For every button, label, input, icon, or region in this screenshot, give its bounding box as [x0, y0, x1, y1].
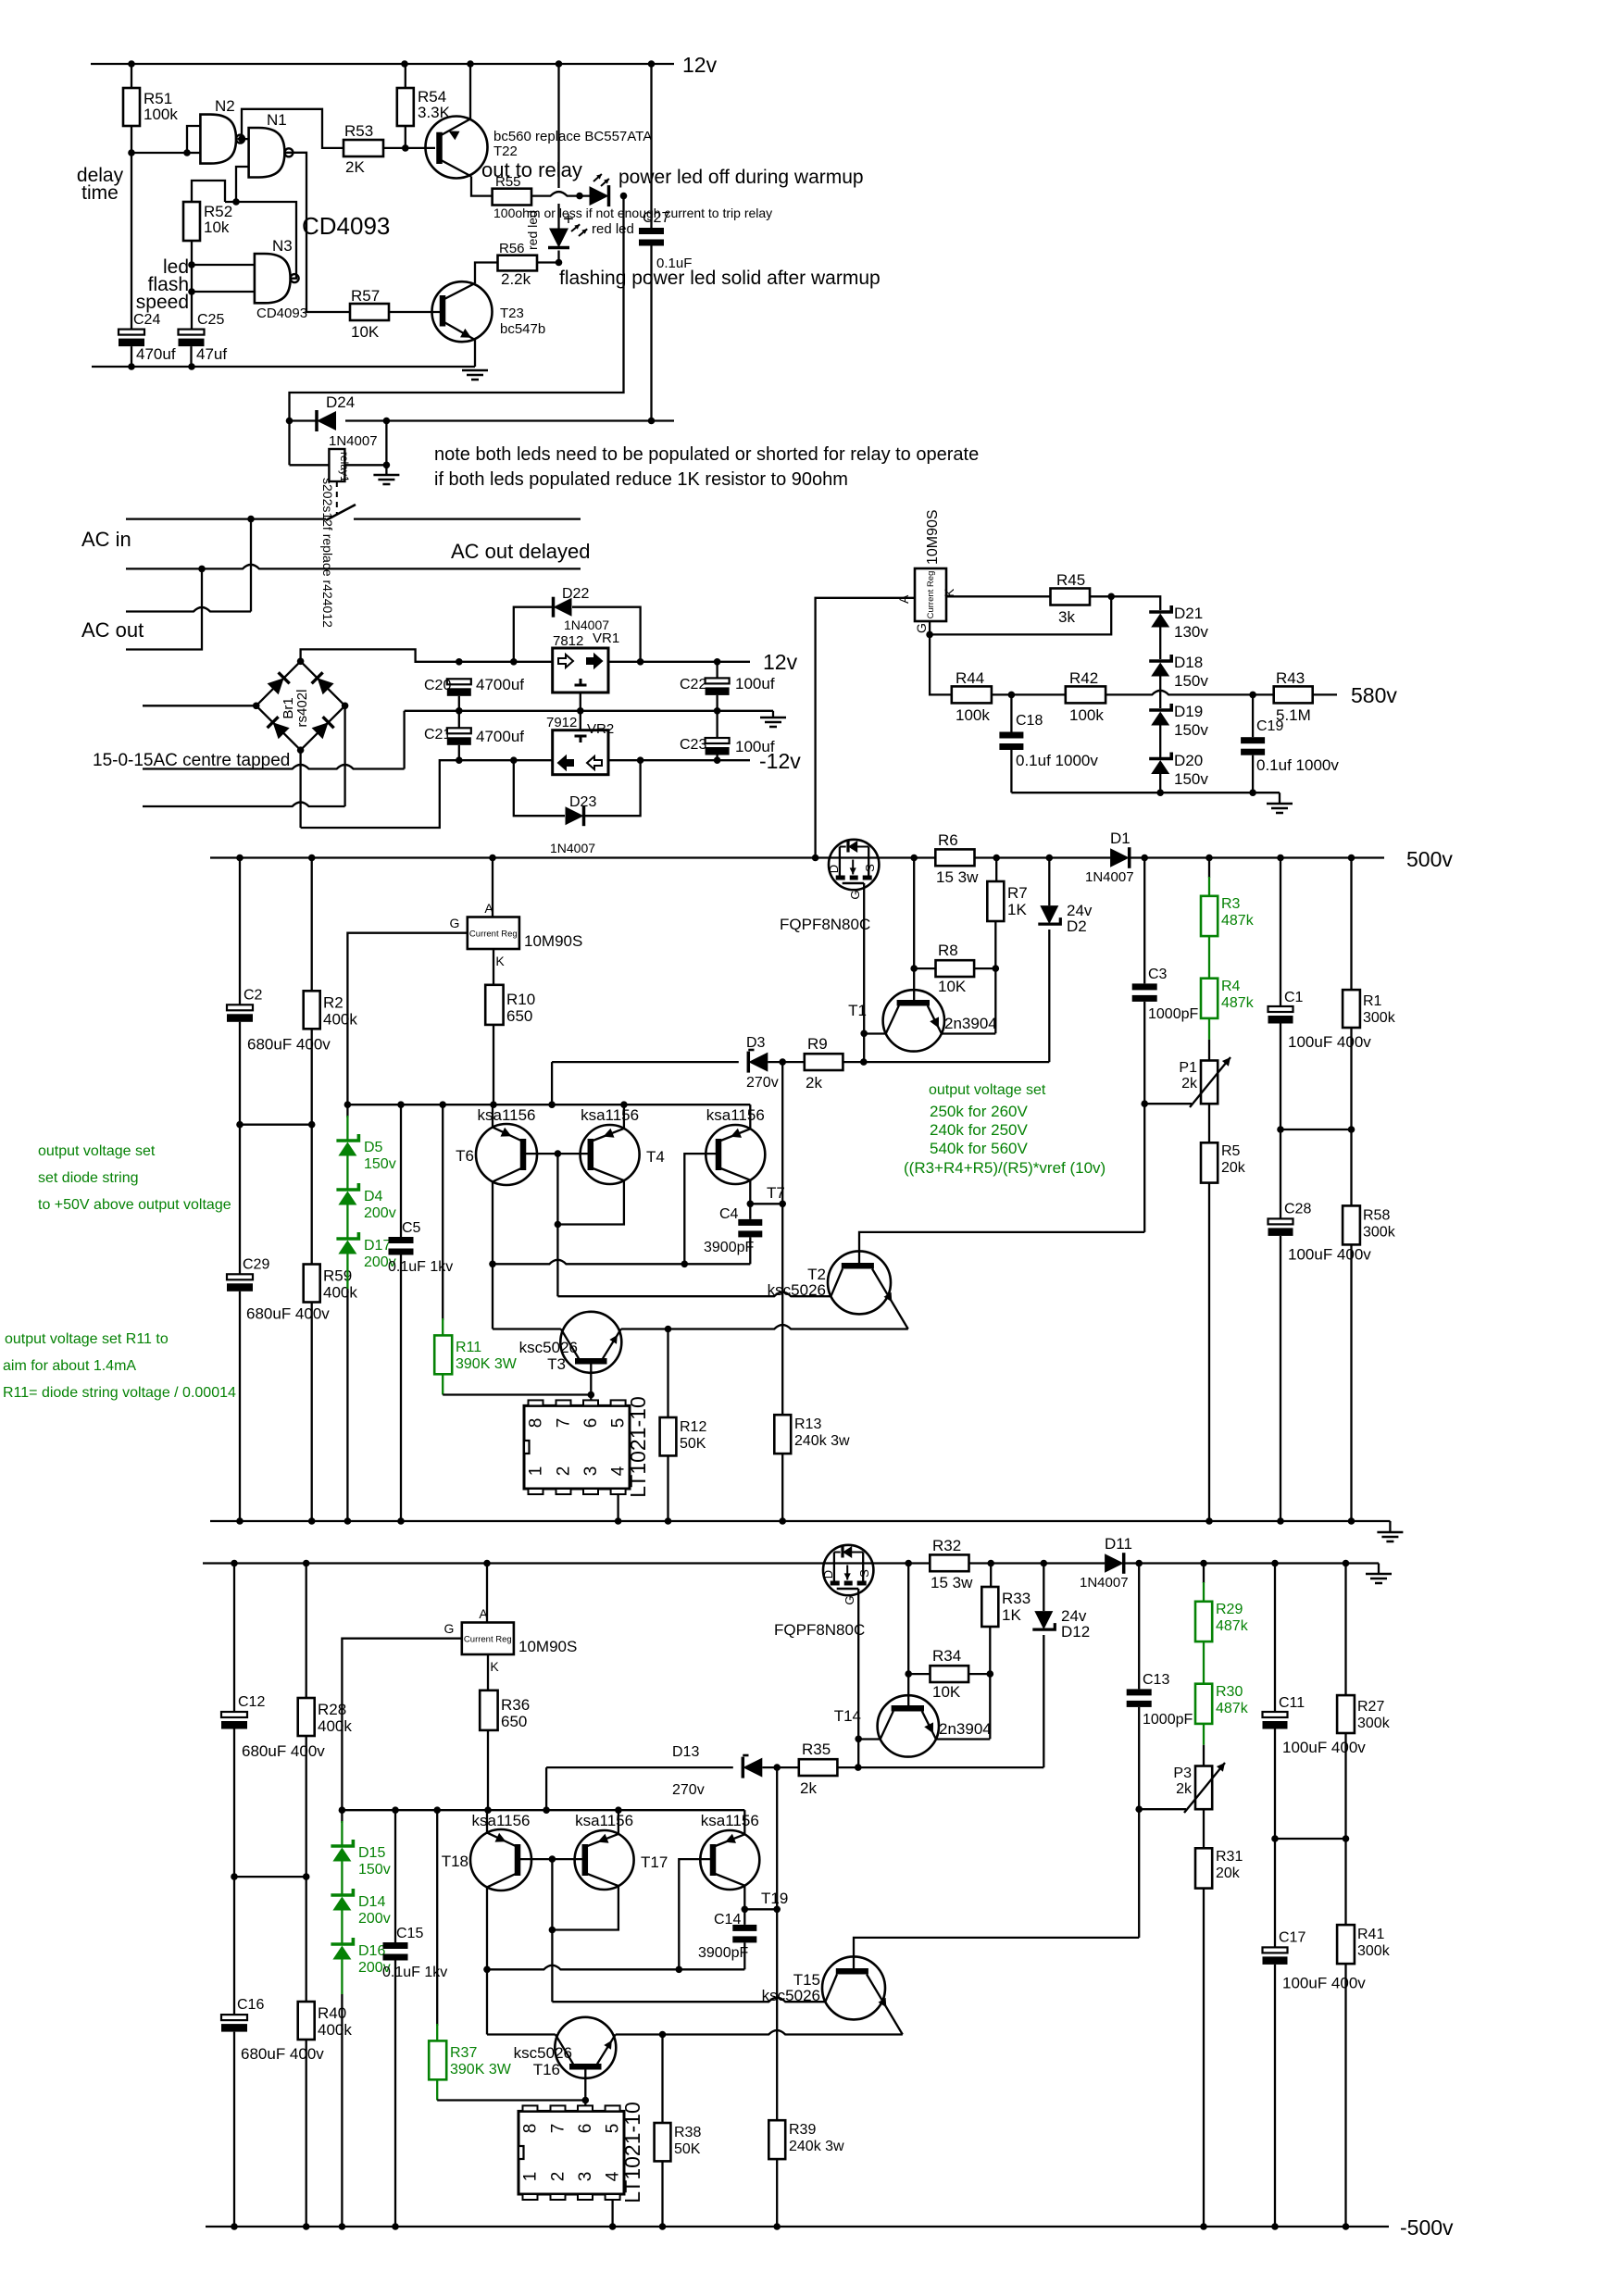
wire C4 bottom row	[487, 1965, 744, 1970]
svg-text:2k: 2k	[1176, 1781, 1193, 1797]
resistor R28	[306, 1564, 307, 1699]
svg-text:100uF 400v: 100uF 400v	[1282, 1739, 1366, 1756]
resistor R1	[1350, 858, 1352, 991]
svg-text:10K: 10K	[351, 323, 380, 341]
svg-text:ksc5026: ksc5026	[514, 2044, 572, 2062]
svg-text:400k: 400k	[318, 1717, 352, 1735]
svg-text:400k: 400k	[323, 1010, 357, 1028]
wire relay flyback row	[290, 419, 318, 421]
regulator VR1 7812	[553, 648, 608, 693]
svg-text:D24: D24	[326, 393, 355, 411]
resistor R31	[1203, 1809, 1205, 1848]
svg-text:AC in: AC in	[81, 528, 131, 551]
resistor R8	[914, 967, 935, 969]
zener D21 130v	[1149, 605, 1171, 612]
svg-text:D17: D17	[364, 1238, 391, 1254]
svg-text:((R3+R4+R5)/(R5)*vref (10v): ((R3+R4+R5)/(R5)*vref (10v)	[904, 1159, 1106, 1177]
svg-text:G: G	[444, 1621, 455, 1636]
svg-text:D5: D5	[364, 1140, 383, 1155]
svg-text:10k: 10k	[204, 218, 230, 236]
svg-text:100k: 100k	[956, 706, 990, 724]
transistor T6	[476, 1124, 537, 1185]
wire wiper to C3 column	[1139, 1808, 1186, 1810]
capacitor C24	[131, 153, 132, 330]
svg-text:D11: D11	[1105, 1535, 1132, 1553]
svg-text:C24: C24	[133, 312, 160, 328]
capacitor C21	[458, 711, 460, 729]
capacitor C22	[716, 662, 718, 679]
wire wiper to C3 column	[1144, 1103, 1192, 1104]
svg-text:R45: R45	[1056, 571, 1085, 589]
svg-text:D13: D13	[672, 1744, 699, 1760]
zener D19 150v	[1149, 704, 1171, 710]
svg-text:400k: 400k	[323, 1284, 357, 1302]
wire pin 4 to ground rail	[611, 2200, 613, 2227]
resistor R11	[442, 1104, 443, 1320]
svg-text:R1: R1	[1363, 993, 1382, 1009]
svg-text:K: K	[490, 1659, 499, 1674]
capacitor C25	[179, 330, 205, 335]
svg-text:C25: C25	[197, 312, 224, 328]
wire AC in line 1	[126, 518, 326, 519]
svg-text:Current Reg: Current Reg	[469, 930, 518, 940]
svg-text:100k: 100k	[1069, 706, 1104, 724]
svg-text:2n3904: 2n3904	[939, 1720, 992, 1738]
svg-text:T18: T18	[442, 1853, 468, 1870]
svg-text:T19: T19	[761, 1890, 788, 1907]
capacitor C3	[1143, 858, 1145, 984]
svg-text:N1: N1	[267, 111, 287, 129]
resistor R54	[405, 64, 406, 88]
svg-text:6: 6	[581, 1418, 601, 1429]
svg-text:R38: R38	[674, 2125, 701, 2140]
wire right link row	[1275, 1838, 1346, 1840]
svg-text:100k: 100k	[144, 106, 178, 123]
svg-text:R35: R35	[802, 1741, 831, 1758]
svg-text:1K: 1K	[1002, 1606, 1021, 1624]
wire regulator node row	[342, 1809, 744, 1811]
zener D14	[341, 1862, 343, 1896]
regulator 10M90S current reg	[486, 1564, 488, 1623]
svg-text:470uf: 470uf	[136, 345, 176, 363]
svg-text:3900pF: 3900pF	[704, 1240, 754, 1255]
wire base tie column down	[551, 1859, 553, 1929]
svg-text:R6: R6	[938, 831, 958, 849]
wire VR2 output -12v	[608, 759, 750, 761]
svg-text:C21: C21	[424, 727, 451, 742]
transistor T18	[470, 1829, 531, 1890]
svg-text:487k: 487k	[1221, 995, 1255, 1011]
svg-text:T17: T17	[641, 1853, 668, 1871]
transistor T17	[575, 1830, 634, 1890]
svg-text:C15: C15	[396, 1926, 423, 1941]
regulator VR2 7912	[553, 730, 608, 775]
wire timer 0v rail	[92, 366, 475, 368]
resistor R41	[1344, 1839, 1346, 1925]
capacitor C28	[1280, 1129, 1281, 1218]
svg-text:0.1uf 1000v: 0.1uf 1000v	[1016, 752, 1098, 769]
zener D15	[341, 1810, 343, 1823]
diode D23 1N4007	[514, 760, 565, 816]
potentiometer P1 2k	[1201, 1061, 1218, 1104]
svg-text:15 3w: 15 3w	[936, 868, 979, 886]
wire N3 output feedback to N1 input and R52	[225, 202, 296, 279]
wire main rail	[203, 1562, 930, 1564]
svg-text:300k: 300k	[1363, 1224, 1396, 1240]
svg-text:2: 2	[549, 2172, 568, 2182]
svg-text:S: S	[857, 1569, 871, 1578]
svg-text:D22: D22	[562, 586, 589, 602]
svg-text:10K: 10K	[932, 1683, 961, 1701]
svg-text:R12: R12	[680, 1419, 706, 1435]
svg-text:R56: R56	[499, 241, 525, 256]
svg-text:3k: 3k	[1058, 608, 1075, 626]
wire T2 collector row	[557, 1292, 831, 1297]
svg-text:50K: 50K	[674, 2141, 701, 2157]
svg-text:240k 3w: 240k 3w	[794, 1433, 850, 1449]
svg-text:100uF 400v: 100uF 400v	[1288, 1033, 1371, 1051]
capacitor C27	[650, 64, 652, 228]
svg-text:240k for 250V: 240k for 250V	[930, 1121, 1029, 1139]
wire VR2 ground stub	[580, 711, 581, 730]
svg-text:100uf: 100uf	[735, 738, 775, 755]
svg-text:D18: D18	[1174, 654, 1203, 671]
svg-text:D: D	[821, 1570, 835, 1578]
svg-text:C27: C27	[643, 210, 669, 226]
svg-text:500v: 500v	[1406, 847, 1453, 871]
svg-text:390K 3W: 390K 3W	[450, 2062, 512, 2078]
svg-text:R2: R2	[323, 993, 344, 1011]
transistor T16 ksc5026	[555, 2017, 616, 2078]
svg-text:set diode string: set diode string	[38, 1170, 139, 1186]
svg-text:400k: 400k	[318, 2021, 352, 2039]
wire R43 to 580v	[1313, 693, 1337, 695]
potentiometer P3 2k	[1195, 1766, 1212, 1810]
wire main rail	[210, 856, 935, 858]
node rail dots	[236, 855, 244, 862]
capacitor C4	[749, 1204, 751, 1219]
wire AC out line 4	[126, 568, 202, 649]
svg-text:1N4007: 1N4007	[1085, 869, 1134, 885]
resistor R57	[350, 304, 389, 320]
svg-text:R53: R53	[344, 122, 373, 140]
svg-text:1N4007: 1N4007	[1080, 1575, 1129, 1591]
wire R42 to 580v node with hop over zener string	[1106, 691, 1274, 695]
wire cap link row	[234, 1876, 306, 1878]
svg-text:1K: 1K	[1007, 901, 1027, 918]
resistor R5	[1208, 1104, 1210, 1142]
capacitor C1	[1280, 858, 1281, 1007]
svg-text:8: 8	[521, 2124, 541, 2134]
resistor R6 on rail	[935, 849, 974, 866]
wire section ground rail	[206, 2226, 1389, 2227]
wire node link to D3	[551, 1062, 553, 1104]
svg-text:LT1021-10: LT1021-10	[620, 2102, 644, 2203]
svg-text:R55: R55	[495, 174, 521, 190]
svg-text:R7: R7	[1007, 884, 1028, 902]
wire red led to R56	[557, 251, 559, 263]
svg-text:R58: R58	[1363, 1207, 1390, 1223]
svg-text:2k: 2k	[806, 1074, 822, 1092]
transistor FQPF8N80C MOSFET	[829, 840, 879, 890]
svg-text:D19: D19	[1174, 703, 1203, 720]
svg-text:D23: D23	[569, 794, 596, 810]
ground T23 emitter	[462, 370, 488, 380]
svg-text:FQPF8N80C: FQPF8N80C	[774, 1621, 865, 1639]
capacitor C23	[716, 711, 718, 738]
svg-text:CD4093: CD4093	[302, 212, 390, 240]
nand gate N2	[200, 115, 236, 164]
svg-text:2: 2	[555, 1466, 574, 1477]
capacitor C17	[1274, 1839, 1276, 1947]
wire T3 collector row	[486, 1887, 488, 2034]
wire T7 collector to C4 row	[749, 1180, 751, 1204]
svg-text:47uf: 47uf	[196, 345, 227, 363]
wire N1 output to R57	[284, 153, 350, 312]
transistor T7	[706, 1125, 765, 1184]
wire R9 to T1 collector and D2	[843, 1061, 1049, 1063]
wire section ground rail	[210, 1520, 1390, 1522]
wire R57 to T23 base	[389, 311, 443, 313]
wire R51 to N2 inputs	[128, 149, 135, 156]
svg-text:C18: C18	[1016, 713, 1043, 729]
bridge rectifier Br1 rs402l	[256, 661, 301, 705]
wire base tie row	[523, 1153, 591, 1154]
svg-text:note both leds need to be popu: note both leds need to be populated or s…	[434, 444, 979, 465]
svg-text:ksa1156: ksa1156	[701, 1812, 759, 1829]
svg-text:C11: C11	[1279, 1695, 1305, 1711]
svg-text:A: A	[484, 901, 493, 916]
svg-text:680uF 400v: 680uF 400v	[246, 1304, 330, 1322]
svg-text:G: G	[450, 916, 460, 930]
wire centre tap line	[143, 765, 405, 769]
resistor R7	[995, 858, 997, 882]
transistor T4	[581, 1125, 640, 1184]
resistor R58	[1350, 1129, 1352, 1205]
svg-text:C5: C5	[402, 1220, 421, 1236]
svg-text:bc547b: bc547b	[500, 321, 545, 337]
svg-text:flashing power led solid after: flashing power led solid after warmup	[559, 268, 881, 289]
svg-text:VR2: VR2	[587, 721, 614, 737]
wire 0v mid rail	[405, 710, 773, 712]
svg-text:T6: T6	[456, 1147, 474, 1165]
wire C4 top row	[750, 1203, 782, 1204]
wire C4 top row	[744, 1908, 777, 1910]
wire bridge minus to VR2 input	[299, 750, 301, 828]
svg-text:aim for about 1.4mA: aim for about 1.4mA	[3, 1358, 136, 1374]
wire T4 collector to base tie	[557, 1180, 624, 1224]
resistor R34	[908, 1673, 930, 1675]
svg-text:50K: 50K	[680, 1436, 706, 1452]
diode D24 1N4007	[317, 411, 336, 430]
transistor T1 2n3904	[883, 990, 944, 1051]
svg-text:C17: C17	[1279, 1929, 1305, 1945]
svg-text:output voltage set: output voltage set	[929, 1082, 1046, 1098]
svg-text:2n3904: 2n3904	[944, 1015, 997, 1032]
wire R11 to pin 6	[443, 1393, 591, 1395]
wire T3 collector row	[492, 1181, 493, 1329]
led power led	[590, 186, 609, 206]
svg-text:R41: R41	[1357, 1927, 1384, 1942]
transistor FQPF8N80C MOSFET	[823, 1545, 873, 1595]
svg-text:C12: C12	[238, 1694, 265, 1710]
svg-text:0.1uf 1000v: 0.1uf 1000v	[1256, 756, 1339, 774]
svg-text:R34: R34	[932, 1647, 961, 1665]
svg-text:100uf: 100uf	[735, 675, 775, 693]
resistor R36	[487, 1654, 489, 1691]
svg-text:red led: red led	[592, 221, 634, 237]
nand gate N3	[255, 254, 291, 303]
wire R9 to T1 collector and D2	[837, 1766, 1043, 1768]
diode D11 1N4007 on rail	[1105, 1554, 1124, 1573]
capacitor C5	[400, 1104, 402, 1237]
svg-text:0.1uF: 0.1uF	[656, 256, 692, 271]
svg-text:ksc5026: ksc5026	[519, 1339, 578, 1356]
resistor R13	[781, 1062, 783, 1415]
svg-text:20k: 20k	[1221, 1160, 1246, 1176]
wire R56 to T23 collector	[475, 263, 498, 284]
svg-text:speed: speed	[136, 292, 189, 313]
svg-text:D4: D4	[364, 1189, 383, 1204]
svg-text:R3: R3	[1221, 896, 1241, 912]
svg-text:487k: 487k	[1216, 1701, 1249, 1716]
svg-text:power led off during warmup: power led off during warmup	[618, 167, 864, 188]
svg-text:130v: 130v	[1174, 623, 1208, 641]
wire T2 collector row	[552, 1998, 825, 2003]
zener D2 24v	[1048, 858, 1050, 906]
svg-text:ksa1156: ksa1156	[706, 1106, 765, 1124]
resistor R44 100k	[952, 686, 992, 703]
resistor R43 5.1M	[1274, 686, 1313, 703]
wire AC out delayed line 1 after switch	[354, 518, 581, 519]
svg-text:7: 7	[555, 1418, 574, 1429]
svg-text:R11: R11	[456, 1340, 481, 1355]
resistor R39	[776, 1767, 778, 2120]
svg-text:2k: 2k	[800, 1779, 817, 1797]
svg-text:R43: R43	[1276, 669, 1305, 687]
svg-text:P1: P1	[1179, 1060, 1197, 1076]
svg-text:R36: R36	[501, 1696, 530, 1714]
svg-text:10M90S: 10M90S	[925, 509, 941, 565]
svg-text:487k: 487k	[1221, 913, 1255, 929]
zener D12 24v	[1043, 1564, 1044, 1612]
svg-text:10K: 10K	[938, 978, 967, 995]
wire C4 bottom row	[493, 1260, 750, 1265]
zener D17	[346, 1205, 348, 1240]
capacitor C2	[239, 858, 241, 1005]
zener D4	[346, 1156, 348, 1191]
transistor T22 bc560 PNP	[426, 117, 488, 179]
wire T4 collector to base tie	[552, 1886, 618, 1929]
svg-text:D: D	[827, 865, 841, 873]
svg-text:D16: D16	[358, 1943, 385, 1959]
wire T7 collector to C4 row	[743, 1886, 745, 1910]
svg-text:680uF 400v: 680uF 400v	[241, 2045, 324, 2063]
svg-text:680uF 400v: 680uF 400v	[247, 1035, 331, 1053]
svg-text:270v: 270v	[672, 1782, 705, 1798]
svg-text:300k: 300k	[1363, 1010, 1396, 1026]
resistor R40	[306, 1877, 307, 2002]
svg-text:D2: D2	[1067, 917, 1087, 935]
transistor T15 ksc5026	[822, 1956, 885, 2019]
svg-text:ksa1156: ksa1156	[477, 1106, 535, 1124]
ground 580v divider	[1279, 792, 1280, 804]
wire transformer line to bridge left	[143, 705, 256, 706]
svg-text:250k for 260V: 250k for 260V	[930, 1103, 1029, 1120]
svg-text:200v: 200v	[358, 1911, 391, 1927]
svg-text:270v: 270v	[746, 1075, 779, 1091]
diode D1 1N4007 on rail	[1110, 848, 1130, 867]
resistor R3 green	[1208, 858, 1210, 879]
svg-text:S: S	[863, 864, 877, 872]
resistor R33	[990, 1564, 992, 1588]
led red led	[549, 229, 568, 248]
svg-text:150v: 150v	[1174, 672, 1208, 690]
svg-text:R30: R30	[1216, 1684, 1243, 1700]
svg-text:8: 8	[527, 1418, 546, 1429]
resistor R51	[131, 64, 132, 88]
nand gate N1	[249, 128, 285, 178]
capacitor C11	[1274, 1564, 1276, 1713]
svg-text:R9: R9	[807, 1035, 828, 1053]
svg-text:7912: 7912	[546, 715, 577, 730]
svg-text:-500v: -500v	[1400, 2215, 1454, 2240]
svg-text:2.2k: 2.2k	[501, 270, 531, 288]
wire zener string to ground rail	[341, 1960, 343, 1995]
resistor R4 green	[1208, 936, 1210, 979]
svg-text:T1: T1	[848, 1002, 867, 1019]
transistor T19	[700, 1830, 759, 1890]
diode D22 1N4007	[514, 607, 553, 662]
svg-text:5.1M: 5.1M	[1276, 706, 1311, 724]
svg-text:540k for 560V: 540k for 560V	[930, 1140, 1029, 1157]
svg-text:R42: R42	[1069, 669, 1098, 687]
svg-text:R33: R33	[1002, 1590, 1031, 1607]
regulator current reg 10M90S vertical	[915, 568, 946, 621]
svg-text:+: +	[563, 209, 574, 230]
svg-text:FQPF8N80C: FQPF8N80C	[780, 916, 870, 933]
resistor R2	[311, 858, 313, 992]
capacitor C20	[447, 679, 471, 684]
svg-text:1: 1	[521, 2172, 541, 2182]
wire zener string bottom row	[1011, 792, 1280, 793]
svg-text:3900pF: 3900pF	[698, 1945, 748, 1961]
svg-text:1N4007: 1N4007	[550, 841, 595, 855]
svg-text:D20: D20	[1174, 752, 1203, 769]
svg-text:150v: 150v	[1174, 721, 1208, 739]
svg-text:D12: D12	[1061, 1623, 1090, 1641]
node rail label	[1378, 1564, 1380, 1575]
svg-text:R31: R31	[1216, 1849, 1243, 1865]
svg-text:2K: 2K	[345, 158, 365, 176]
relay switch contact	[336, 481, 338, 515]
capacitor C14	[743, 1909, 745, 1925]
svg-text:R5: R5	[1221, 1143, 1241, 1159]
svg-text:R13: R13	[794, 1416, 821, 1432]
wire red led column from 12v	[557, 64, 559, 188]
svg-text:T22: T22	[493, 143, 518, 159]
svg-text:2k: 2k	[1181, 1076, 1198, 1092]
wire AC in line 2	[126, 565, 581, 569]
svg-text:C13: C13	[1143, 1672, 1169, 1688]
svg-text:R37: R37	[450, 2045, 477, 2061]
wire junction dots on 12v rail	[128, 60, 135, 68]
diode D13 270v	[546, 1766, 733, 1768]
svg-text:1000pF: 1000pF	[1143, 1712, 1193, 1728]
regulator 10M90S current reg	[492, 858, 493, 917]
wire A pin to 500v rail	[816, 598, 915, 858]
svg-text:to +50V above output voltage: to +50V above output voltage	[38, 1197, 231, 1213]
